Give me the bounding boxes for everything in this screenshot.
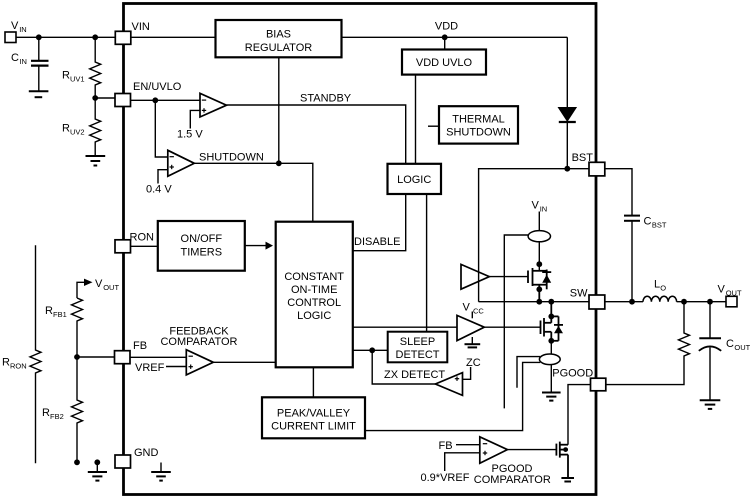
label VIN input <box>11 20 27 34</box>
wire feedback comparator to COT <box>213 361 275 363</box>
node low FET diode top <box>548 314 554 320</box>
wire ZC to ZX comparator <box>463 367 471 379</box>
svg-text:0.4 V: 0.4 V <box>146 184 172 196</box>
svg-text:VDD UVLO: VDD UVLO <box>416 57 473 69</box>
ground RUV2 <box>86 156 106 166</box>
svg-text:CONSTANT: CONSTANT <box>284 271 344 283</box>
block CONSTANT ON-TIME CONTROL LOGIC <box>276 222 353 368</box>
label VOUT output <box>718 284 742 298</box>
svg-text:R: R <box>42 407 50 419</box>
svg-text:STANDBY: STANDBY <box>300 93 352 105</box>
wire 0.4V reference <box>158 170 168 184</box>
svg-text:R: R <box>62 70 70 82</box>
svg-text:V: V <box>718 284 726 296</box>
svg-text:FB1: FB1 <box>53 310 67 319</box>
wire VIN input rail <box>16 36 115 38</box>
label VDD <box>435 21 458 33</box>
arrow COT input <box>266 242 274 250</box>
svg-text:SW: SW <box>570 288 588 300</box>
wire EN to shutdown comparator <box>155 100 168 157</box>
wire VOUT arrow lead <box>77 282 84 298</box>
label CBST <box>644 216 667 230</box>
wire timers to COT <box>245 245 266 247</box>
pin VIN <box>115 31 131 44</box>
svg-text:CURRENT LIMIT: CURRENT LIMIT <box>271 421 356 433</box>
label 0.9*VREF <box>421 472 470 484</box>
svg-text:RON: RON <box>10 361 27 370</box>
wire VDD rail <box>342 36 568 38</box>
wire VIN to sense <box>538 212 540 231</box>
node sleep junction <box>369 347 375 353</box>
label VCC <box>463 302 485 316</box>
op-amp low-side driver <box>457 315 484 340</box>
svg-text:IN: IN <box>19 57 27 66</box>
terminal VOUT <box>726 296 737 307</box>
svg-text:R: R <box>2 357 10 369</box>
wire COT to SLEEP DETECT <box>353 349 388 351</box>
node RFB2 bottom <box>74 459 80 465</box>
label DISABLE <box>354 236 400 248</box>
wire VIN pin to BIAS <box>131 36 216 38</box>
wire LOGIC to SLEEP DETECT <box>426 194 428 332</box>
svg-text:VIN: VIN <box>132 21 150 33</box>
current sense low-side <box>539 354 560 365</box>
svg-text:UV2: UV2 <box>70 127 85 136</box>
diode bootstrap <box>559 108 576 169</box>
svg-text:IN: IN <box>540 204 548 213</box>
svg-text:0.9*VREF: 0.9*VREF <box>421 472 470 484</box>
svg-text:UV1: UV1 <box>70 74 85 83</box>
wire low-side gate <box>484 326 540 328</box>
pin EN/UVLO <box>115 94 131 107</box>
wire EN node to comparator <box>131 99 201 101</box>
svg-text:DISABLE: DISABLE <box>354 236 400 248</box>
svg-text:BST: BST <box>572 152 594 164</box>
svg-text:CC: CC <box>473 306 484 315</box>
wire VCC to low driver <box>471 312 473 319</box>
label STANDBY <box>300 93 352 105</box>
svg-text:PEAK/VALLEY: PEAK/VALLEY <box>277 408 351 420</box>
svg-text:1.5 V: 1.5 V <box>177 129 203 141</box>
wire ZX output <box>372 350 435 384</box>
svg-text:BIAS: BIAS <box>266 29 291 41</box>
label VREF <box>135 362 165 374</box>
label FB pgood <box>439 440 453 452</box>
current sense high-side <box>528 231 550 242</box>
wire thermal stub <box>428 125 439 127</box>
label VOUT feedback <box>95 278 119 292</box>
block SLEEP DETECT <box>388 332 448 363</box>
node low FET source <box>548 338 554 344</box>
svg-text:DETECT: DETECT <box>396 349 440 361</box>
pin marks EN comparator <box>202 100 206 113</box>
svg-text:ZC: ZC <box>466 357 481 369</box>
ground low driver <box>465 337 481 347</box>
wire SW rail <box>479 301 589 303</box>
ground CIN <box>29 91 49 97</box>
label RRON <box>2 357 27 371</box>
inductor LO <box>643 296 677 301</box>
resistor RUV2 <box>90 98 101 156</box>
arrow VOUT <box>84 279 93 286</box>
label ZX DETECT <box>384 369 445 381</box>
ground PGOOD FET <box>561 478 574 482</box>
wire DISABLE <box>353 194 406 251</box>
wire COT to current limit <box>312 367 314 397</box>
label CIN <box>11 52 27 66</box>
pin RON <box>115 240 131 253</box>
label RUV2 <box>62 123 85 137</box>
wire VDD UVLO feed <box>444 37 446 49</box>
resistor RUV1 <box>90 37 101 98</box>
node SW b <box>548 299 554 305</box>
terminal VIN input <box>5 32 16 43</box>
pin FB <box>115 351 131 364</box>
node EN internal <box>152 97 158 103</box>
wire SW pin to inductor <box>605 301 643 303</box>
svg-text:IN: IN <box>19 25 27 34</box>
pin GND <box>115 455 131 468</box>
svg-text:VREF: VREF <box>135 362 165 374</box>
node LO output <box>681 299 687 305</box>
wire BST to driver to SW rail <box>479 169 568 302</box>
wire RON pin to timers <box>131 245 158 247</box>
wire low FET to sense <box>550 341 552 354</box>
op-amp FEEDBACK comparator <box>186 350 213 375</box>
svg-text:EN/UVLO: EN/UVLO <box>133 81 182 93</box>
svg-text:R: R <box>62 123 70 135</box>
svg-text:OUT: OUT <box>103 283 119 292</box>
resistor RFB1 <box>72 298 83 357</box>
label 1.5 V <box>177 129 203 141</box>
svg-text:CONTROL: CONTROL <box>287 297 341 309</box>
svg-text:V: V <box>95 278 103 290</box>
svg-text:FB: FB <box>439 440 453 452</box>
node shutdown junction <box>276 160 282 166</box>
wire sense to ground <box>550 364 552 392</box>
svg-text:COMPARATOR: COMPARATOR <box>474 474 551 486</box>
wire BST to pin <box>567 168 589 170</box>
svg-text:REGULATOR: REGULATOR <box>245 42 312 54</box>
svg-text:LOGIC: LOGIC <box>397 174 431 186</box>
svg-text:COMPARATOR: COMPARATOR <box>160 336 237 348</box>
main IC box <box>124 4 597 495</box>
transistor high-side FET <box>528 268 551 302</box>
node CIN junction <box>36 34 42 40</box>
svg-text:ON/OFF: ON/OFF <box>181 233 223 245</box>
node COUT junction <box>707 299 713 305</box>
svg-text:VDD: VDD <box>435 21 458 33</box>
wire 0.9VREF input <box>445 453 480 471</box>
wire 1.5V reference <box>190 110 200 128</box>
node RUV1 junction <box>92 34 98 40</box>
wire inductor to VOUT <box>677 301 726 303</box>
wire FB pin to comparator <box>131 356 187 358</box>
block PEAK/VALLEY CURRENT LIMIT <box>262 397 365 438</box>
svg-text:BST: BST <box>652 220 667 229</box>
ground feedback divider <box>88 459 107 480</box>
wire BST to CBST <box>605 169 632 215</box>
resistor PGOOD pullup <box>606 302 690 385</box>
svg-text:O: O <box>660 283 666 292</box>
label 0.4 V <box>146 184 172 196</box>
pin mark ZX plus <box>455 377 459 381</box>
label COUT <box>726 338 750 352</box>
node high FET source <box>536 286 542 292</box>
wire VDD to diode <box>566 37 568 107</box>
svg-text:OUT: OUT <box>726 288 742 297</box>
svg-text:SLEEP: SLEEP <box>400 336 435 348</box>
wire FB to pgood comparator <box>456 444 480 446</box>
svg-text:FB: FB <box>133 340 147 352</box>
wire VDD UVLO to LOGIC <box>415 75 417 164</box>
label SHUTDOWN <box>199 152 264 164</box>
pin PGOOD <box>591 378 606 391</box>
svg-text:OUT: OUT <box>734 343 750 352</box>
svg-text:C: C <box>644 216 652 228</box>
node BST junction <box>564 166 570 172</box>
svg-text:THERMAL: THERMAL <box>452 113 505 125</box>
resistor RRON <box>30 245 41 463</box>
svg-text:V: V <box>11 20 19 32</box>
wire sense to FET drain <box>538 242 540 271</box>
wire low sense tap stub <box>517 357 540 388</box>
capacitor COUT <box>699 302 721 400</box>
svg-text:FB2: FB2 <box>50 412 64 421</box>
label RUV1 <box>62 70 85 84</box>
node CBST SW junction <box>629 299 635 305</box>
ground power stage <box>542 393 561 401</box>
wire COT to low-side driver <box>353 326 457 328</box>
block VDD UVLO <box>402 50 486 75</box>
label PGOOD COMPARATOR <box>474 463 551 486</box>
svg-text:TIMERS: TIMERS <box>181 246 223 258</box>
pin marks pgood comparator <box>483 444 487 456</box>
label RFB1 <box>45 305 67 319</box>
svg-text:C: C <box>11 52 19 64</box>
ground COUT <box>700 400 721 409</box>
node high FET drain <box>536 261 542 267</box>
wire high sense tap stub <box>504 235 528 408</box>
block ON/OFF TIMERS <box>158 221 245 271</box>
transistor PGOOD open-drain FET <box>556 442 568 478</box>
wire pgood comparator output <box>507 449 556 451</box>
wire current limit to low-side sense <box>365 362 540 430</box>
label RFB2 <box>42 407 64 421</box>
svg-text:RON: RON <box>130 232 155 244</box>
svg-text:SHUTDOWN: SHUTDOWN <box>199 152 264 164</box>
label LO <box>654 279 666 293</box>
svg-text:V: V <box>532 200 540 212</box>
svg-text:R: R <box>45 305 53 317</box>
op-amp ZX DETECT comparator <box>435 373 462 396</box>
pin SW <box>589 295 605 309</box>
pin marks feedback comparator <box>189 356 193 369</box>
pin marks shutdown comparator <box>170 157 174 170</box>
node FB <box>74 354 80 360</box>
svg-text:GND: GND <box>134 447 159 459</box>
label ZC <box>466 357 481 369</box>
svg-text:C: C <box>726 338 734 350</box>
wire PGOOD pin to FET <box>568 385 591 445</box>
transistor low-side FET <box>541 302 564 341</box>
node VDD <box>442 34 448 40</box>
op-amp high-side driver <box>461 264 489 289</box>
op-amp EN/UVLO comparator <box>200 93 227 117</box>
svg-text:ZX DETECT: ZX DETECT <box>384 369 445 381</box>
capacitor CBST <box>624 216 640 302</box>
wire SHUTDOWN net <box>194 163 312 221</box>
block THERMAL SHUTDOWN <box>439 106 518 143</box>
wire high-side gate <box>489 276 528 278</box>
svg-text:ON-TIME: ON-TIME <box>291 284 337 296</box>
node PGOOD FET bulk <box>563 447 568 452</box>
ground GND pin <box>151 463 171 481</box>
capacitor CIN <box>31 37 49 90</box>
block BIAS REGULATOR <box>216 20 342 57</box>
node SW a <box>536 299 542 305</box>
wire EN/UVLO to pin <box>95 97 115 99</box>
svg-text:PGOOD: PGOOD <box>552 367 593 379</box>
op-amp PGOOD comparator <box>480 437 508 463</box>
svg-text:SHUTDOWN: SHUTDOWN <box>446 127 511 139</box>
wire FB to pin <box>77 356 115 358</box>
svg-text:V: V <box>463 302 471 314</box>
svg-text:LOGIC: LOGIC <box>297 310 331 322</box>
label FEEDBACK COMPARATOR <box>160 326 237 348</box>
block LOGIC <box>388 164 442 194</box>
wire STANDBY <box>227 105 406 164</box>
node EN/UVLO external <box>92 95 98 101</box>
wire VREF <box>166 366 186 368</box>
pin BST <box>589 162 605 176</box>
wire BIAS to shutdown junction <box>278 57 280 163</box>
op-amp SHUTDOWN comparator <box>168 150 195 176</box>
resistor RFB2 <box>72 357 83 462</box>
label VIN power stage <box>532 200 548 214</box>
label PGOOD net <box>552 367 593 379</box>
